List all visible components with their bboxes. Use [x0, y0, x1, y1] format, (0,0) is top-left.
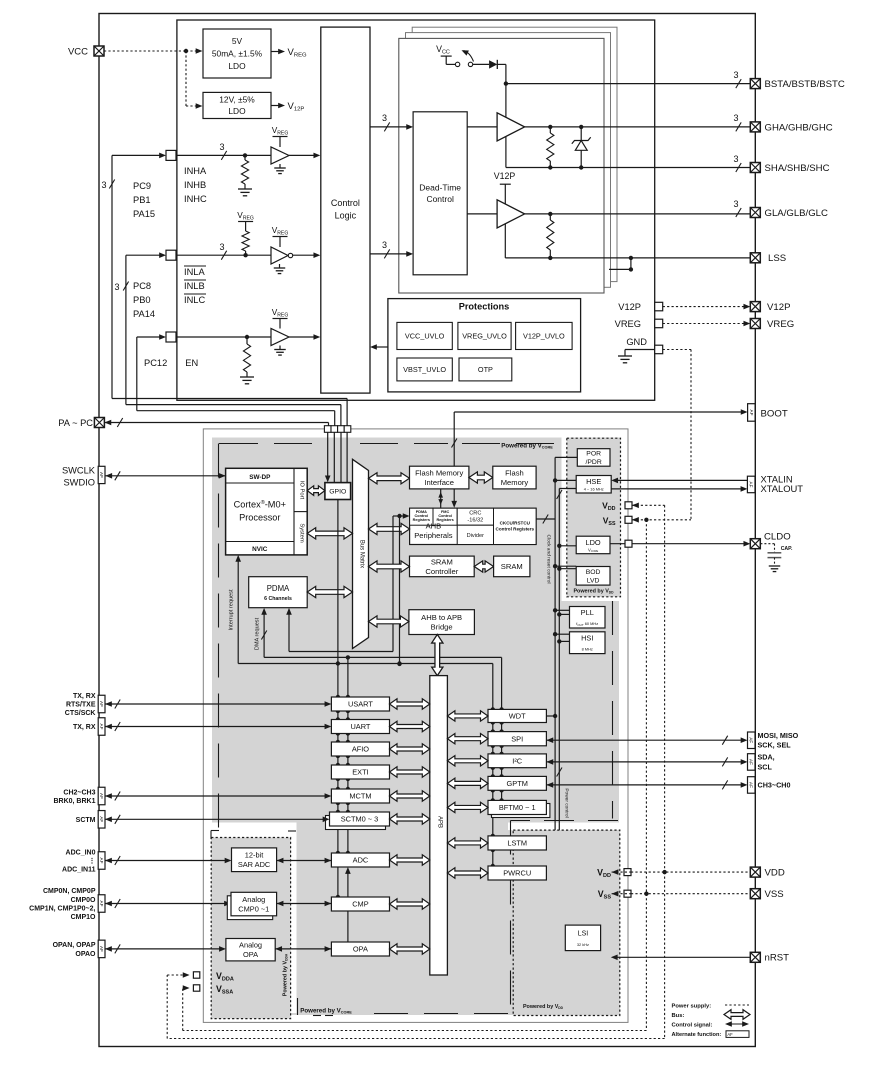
- wire protections to control logic: [375, 346, 388, 348]
- wire CKCU to bus: [536, 518, 555, 520]
- svg-text:LVD: LVD: [587, 577, 600, 584]
- svg-text:AF: AF: [99, 701, 104, 707]
- VCORE dashed border: [219, 443, 258, 445]
- svg-text:AFIO: AFIO: [352, 745, 369, 754]
- block GPTM: [488, 776, 546, 790]
- svg-text:4 ~ 16 MHz: 4 ~ 16 MHz: [584, 487, 604, 492]
- svg-text:PDMA: PDMA: [267, 584, 290, 593]
- block OTP: [459, 358, 512, 381]
- bus arrow APB - BFTM0 ~ 1: [447, 802, 488, 812]
- wire CMP-OPA: [347, 911, 349, 942]
- block BOD/LVD: [576, 567, 610, 586]
- svg-text:Interrupt request: Interrupt request: [229, 589, 235, 630]
- svg-text:OPAO: OPAO: [75, 951, 96, 958]
- VCC pin: [94, 46, 104, 56]
- wire VSS upper dotted: [632, 517, 639, 523]
- bus arrow BusMatrix - AHB Peripherals: [369, 523, 410, 534]
- svg-text:CAP.: CAP.: [781, 546, 793, 552]
- port square VDDA: [193, 972, 199, 978]
- svg-text:MCTM: MCTM: [349, 792, 371, 801]
- svg-text:OPA: OPA: [243, 950, 258, 959]
- svg-text:LSI: LSI: [578, 931, 589, 938]
- svg-text:SCL: SCL: [758, 762, 773, 771]
- wire XTALOUT: [611, 488, 742, 490]
- buffer EN (triangle): [271, 329, 289, 346]
- svg-text:TX, RX: TX, RX: [73, 693, 96, 700]
- sub-box Divider: [457, 525, 493, 544]
- svg-text:Bus Matrix: Bus Matrix: [359, 540, 365, 568]
- wire INH to buffer: [176, 154, 271, 156]
- svg-text:3: 3: [101, 180, 106, 190]
- svg-text:CMP0 ~1: CMP0 ~1: [238, 904, 269, 913]
- inverter INL (triangle with bubble): [271, 247, 288, 264]
- svg-text:AF: AF: [99, 472, 104, 478]
- wire BOOT to FMC: [454, 411, 742, 413]
- ground under INH buffer: [279, 164, 281, 168]
- block AHB Peripherals (outline): [410, 508, 536, 544]
- pin SPI MOSI/MISO/SCK/SEL (AF): [546, 737, 553, 743]
- svg-text:AF: AF: [749, 410, 754, 416]
- svg-text:CH2~CH3: CH2~CH3: [63, 789, 95, 796]
- svg-text:AF: AF: [99, 793, 104, 799]
- svg-text:Flash Memory: Flash Memory: [415, 468, 463, 477]
- svg-text:12-bit: 12-bit: [245, 851, 264, 860]
- svg-text:3: 3: [733, 199, 738, 209]
- svg-text:LDO: LDO: [228, 106, 246, 116]
- svg-text:3: 3: [114, 282, 119, 292]
- MCU enclosure rect: [203, 429, 628, 1023]
- wire GLA row to pin: [525, 213, 751, 215]
- svg-text:LSTM: LSTM: [507, 839, 527, 848]
- svg-text:GND: GND: [626, 337, 647, 347]
- wire chain USART..SCTM (left): [337, 711, 339, 720]
- svg-text:8 MHz: 8 MHz: [582, 647, 593, 652]
- svg-text:SHA/SHB/SHC: SHA/SHB/SHC: [765, 163, 830, 174]
- svg-text:Powered by VDD: Powered by VDD: [523, 1004, 564, 1010]
- svg-text:AF: AF: [749, 737, 754, 743]
- block Protections (outline): [388, 299, 581, 392]
- wire VDD row dotted: [612, 869, 619, 875]
- svg-text:Processor: Processor: [239, 513, 280, 523]
- block VBST_UVLO: [397, 358, 452, 381]
- pin BOOT (AF): [748, 404, 756, 422]
- svg-text:Peripherals: Peripherals: [414, 531, 453, 540]
- svg-text:CMP1N, CMP1P0~2,: CMP1N, CMP1P0~2,: [29, 905, 95, 912]
- svg-text:Protections: Protections: [459, 302, 510, 312]
- svg-text:BSTA/BSTB/BSTC: BSTA/BSTB/BSTC: [765, 79, 845, 90]
- block VREG_UVLO: [458, 322, 511, 349]
- svg-text:SCK, SEL: SCK, SEL: [758, 741, 792, 750]
- VDDA powered dotted box (analog): [211, 838, 290, 1019]
- port square VSS upper: [625, 516, 632, 523]
- svg-text:Control: Control: [426, 194, 454, 204]
- wire chain SCTM-ADC: [337, 826, 339, 853]
- block V12P_UVLO: [516, 322, 573, 349]
- svg-text:GLA/GLB/GLC: GLA/GLB/GLC: [765, 208, 829, 219]
- wire SWD to SW-DP: [105, 473, 112, 479]
- VDD powered dotted box (lower: LSTM PWRCU LSI): [513, 830, 620, 1015]
- block PDMA: [249, 577, 308, 608]
- pin LSS: [750, 253, 760, 263]
- block AHB to APB Bridge: [409, 610, 475, 635]
- driver buffer high-side: [467, 126, 497, 128]
- block OPA: [331, 942, 389, 956]
- svg-text:AF: AF: [99, 816, 104, 822]
- block shadow SCTM0~3: [326, 816, 386, 830]
- wire bus to HSI: [555, 633, 569, 635]
- pin UART TX/RX (AF): [98, 718, 105, 736]
- pin SWCLK/SWDIO (AF): [98, 466, 105, 483]
- pin square INL (driver input): [166, 250, 176, 260]
- svg-text:XTALOUT: XTALOUT: [761, 483, 804, 494]
- bus arrow APB - OPA: [390, 944, 430, 954]
- wire INL inverter to control logic: [293, 254, 315, 256]
- block MCTM: [331, 789, 389, 803]
- block PLL: [570, 607, 606, 629]
- block AFIO: [331, 742, 389, 756]
- svg-text:VSS: VSS: [765, 889, 784, 900]
- divider SW-DP: [226, 482, 294, 484]
- pin square EN (driver input): [166, 332, 176, 342]
- ground under CLDO cap: [769, 565, 780, 567]
- wire Analog CMP - CMP: [277, 901, 284, 907]
- svg-text:VREG: VREG: [767, 319, 794, 330]
- svg-text:SCTM0 ~ 3: SCTM0 ~ 3: [341, 815, 379, 824]
- wire INL to inverter: [176, 254, 271, 256]
- svg-text:V12P: V12P: [618, 302, 641, 312]
- bus arrow BusMatrix - Bridge: [369, 616, 409, 627]
- wire bus to POR: [555, 456, 577, 458]
- pin V12P: [750, 302, 760, 312]
- block Flash Memory Interface: [410, 466, 469, 489]
- block ADC: [331, 853, 389, 867]
- svg-text:APB: APB: [437, 816, 443, 828]
- block SCTM0 ~ 3: [330, 812, 390, 826]
- clock-reset control bus (left line): [554, 457, 556, 830]
- ground under EN buffer: [279, 346, 281, 350]
- pin CMP inputs (AF): [98, 895, 105, 913]
- bus arrow APB - MCTM: [390, 791, 430, 801]
- svg-text:DMA request: DMA request: [254, 617, 260, 650]
- wire card-stack return to LSS: [609, 268, 631, 270]
- svg-text:Divider: Divider: [467, 533, 485, 539]
- port square GND: [655, 345, 663, 354]
- ground under EN resistor: [240, 376, 254, 378]
- pin USART TX/RX/RTS/CTS (AF): [98, 695, 105, 713]
- pin ADC_IN0..11 (AF): [98, 852, 105, 870]
- svg-text:AHB: AHB: [426, 522, 442, 531]
- svg-text:3: 3: [733, 70, 738, 80]
- wire VSS bottom dotted rail: [183, 1030, 647, 1032]
- VCORE powered grey region: [212, 438, 619, 1016]
- block Flash Memory: [493, 466, 536, 489]
- wires gpio squares to GPIO block: [327, 432, 329, 477]
- svg-text:INLA: INLA: [184, 267, 205, 277]
- wire VSS row dotted: [612, 891, 619, 897]
- svg-text:LSS: LSS: [768, 253, 786, 264]
- svg-text:SWDIO: SWDIO: [63, 477, 95, 487]
- driver buffer low-side: [467, 213, 497, 215]
- svg-text:/PDR: /PDR: [586, 459, 602, 466]
- svg-text:V12P: V12P: [767, 302, 790, 313]
- svg-text:BRK0, BRK1: BRK0, BRK1: [53, 798, 95, 805]
- port square VREG: [655, 319, 663, 328]
- gate pull resistor (low): [549, 214, 551, 220]
- pin VDD: [750, 867, 760, 877]
- diode (bootstrap): [473, 63, 489, 65]
- svg-text:System: System: [299, 523, 305, 542]
- bus arrow System - BusMatrix: [307, 528, 352, 539]
- block Analog OPA: [226, 939, 275, 961]
- bus arrow APB - SCTM0 ~ 3: [390, 814, 430, 824]
- svg-text:EN: EN: [185, 358, 198, 368]
- block EXTI: [331, 765, 389, 779]
- svg-text:PA15: PA15: [133, 209, 155, 219]
- svg-text:VCC: VCC: [68, 47, 88, 58]
- pin OPA inputs (AF): [98, 940, 105, 958]
- svg-text:GHA/GHB/GHC: GHA/GHB/GHC: [765, 122, 833, 133]
- svg-text:AF: AF: [749, 782, 754, 788]
- bus arrow APB - UART: [390, 721, 430, 731]
- svg-text:⋮: ⋮: [89, 857, 96, 865]
- wire control logic to dead-time (high): [370, 126, 408, 128]
- svg-text:BFTM0 ~ 1: BFTM0 ~ 1: [499, 803, 536, 812]
- svg-text:AF: AF: [727, 1032, 733, 1037]
- svg-text:3: 3: [219, 242, 224, 252]
- block HSE: [576, 476, 611, 494]
- pull-down resistor on EN: [246, 337, 248, 344]
- ground symbol (driver GND): [618, 355, 632, 357]
- svg-text:ADC_IN11: ADC_IN11: [62, 867, 96, 874]
- divider NVIC: [226, 541, 294, 543]
- port square VSS lower: [624, 890, 631, 897]
- control arrows FMI - FMC registers: [440, 489, 442, 508]
- bus arrow APB - ADC: [390, 855, 430, 865]
- svg-text:VREG_UVLO: VREG_UVLO: [462, 332, 507, 341]
- svg-text:PA ~ PC: PA ~ PC: [58, 418, 93, 428]
- svg-text:PA14: PA14: [133, 309, 155, 319]
- wire control logic to dead-time (low): [370, 253, 408, 255]
- regulator 12V LDO: [203, 92, 271, 118]
- svg-text:MOSI, MISO: MOSI, MISO: [758, 731, 799, 740]
- pin GPTM CH3~CH0 (AF): [546, 782, 553, 788]
- wire INLA/B/C input (from PC8 group): [126, 254, 161, 256]
- svg-text:3: 3: [382, 240, 387, 250]
- svg-text:Flash: Flash: [505, 468, 524, 477]
- VDD powered dotted box (upper: POR HSE LDO BOD): [567, 438, 621, 597]
- wire CMP to ADC arrow: [347, 872, 349, 897]
- svg-text:3: 3: [733, 154, 738, 164]
- pin XTALIN/XTALOUT (AF): [747, 476, 755, 493]
- svg-text:SWCLK: SWCLK: [62, 466, 96, 476]
- block UART: [331, 720, 389, 734]
- svg-text:Logic: Logic: [335, 211, 357, 221]
- block shadow Analog CMP: [227, 896, 272, 920]
- pin SHA/SHB/SHC: [750, 163, 760, 173]
- svg-text:PB1: PB1: [133, 195, 151, 205]
- sub-box PDMA Control Registers: [410, 508, 433, 525]
- wire bus to HSE: [555, 479, 576, 481]
- svg-text:BOOT: BOOT: [761, 409, 788, 420]
- wire XTALIN: [617, 479, 748, 481]
- svg-text:POR: POR: [586, 451, 601, 458]
- pin SCTM (AF): [98, 811, 105, 829]
- bus arrow APB - SPI: [447, 734, 488, 744]
- bus arrow APB - EXTI: [390, 767, 430, 777]
- pin VREG: [750, 319, 760, 329]
- driver phase card (back): [412, 27, 617, 281]
- svg-text:OPA: OPA: [353, 945, 368, 954]
- wire EN buffer to control logic: [289, 336, 315, 338]
- driver phase card (front): [399, 38, 604, 293]
- wire VDD bottom dotted rail: [167, 1038, 664, 1040]
- svg-text:Bus:: Bus:: [672, 1013, 685, 1019]
- svg-text:3: 3: [219, 142, 224, 152]
- block WDT: [488, 709, 546, 722]
- divider IO Port / System column: [293, 468, 295, 555]
- wire VCC dotted to LDOs: [104, 50, 186, 52]
- pull-up resistor on INL: [242, 231, 249, 251]
- buffer INH (triangle): [271, 147, 289, 164]
- svg-text:AF: AF: [99, 946, 104, 952]
- pin GLA/GLB/GLC: [750, 208, 760, 218]
- svg-text:Analog: Analog: [239, 941, 262, 950]
- bus arrow BusMatrix - SRAM Controller: [369, 561, 410, 572]
- bus arrow APB - GPTM: [447, 778, 488, 788]
- svg-text:NVIC: NVIC: [252, 546, 268, 553]
- wire bootstrap node to BSTA row: [505, 64, 507, 167]
- pin BSTA/BSTB/BSTC: [750, 79, 760, 89]
- svg-text:ADC_IN0: ADC_IN0: [66, 850, 96, 857]
- block LSI: [565, 925, 600, 951]
- svg-text:ADC: ADC: [353, 856, 369, 865]
- svg-text:OPAN, OPAP: OPAN, OPAP: [53, 942, 96, 949]
- block SRAM: [494, 556, 530, 577]
- pin GHA/GHB/GHC: [750, 122, 760, 132]
- sub-box CRC -16/32: [457, 508, 493, 525]
- svg-text:VBST_UVLO: VBST_UVLO: [403, 365, 446, 374]
- zener diode (gate clamp): [580, 127, 582, 141]
- regulator 5V LDO: [203, 29, 271, 78]
- wire bus to BOD/LVD: [555, 565, 576, 567]
- svg-text:6 Channels: 6 Channels: [264, 596, 292, 602]
- svg-text:CTS/SCK: CTS/SCK: [65, 710, 96, 717]
- svg-text:Analog: Analog: [242, 895, 265, 904]
- svg-text:Controller: Controller: [425, 567, 458, 576]
- block POR/PDR: [577, 449, 610, 467]
- wire LSS rail to pin: [505, 257, 750, 259]
- block Cortex-M0+ processor (outline): [226, 468, 308, 555]
- bus arrow APB - I2C: [447, 756, 488, 766]
- svg-text:PB0: PB0: [133, 295, 151, 305]
- block 12-bit SAR ADC: [232, 848, 277, 872]
- ground under INL inverter: [279, 264, 281, 268]
- block VCC_UVLO: [397, 322, 452, 349]
- block GPIO: [325, 483, 351, 500]
- bus arrow APB - USART: [390, 699, 430, 709]
- svg-text:SPI: SPI: [511, 734, 523, 743]
- sub-box CKCU/RSTCU Control Registers: [494, 508, 537, 544]
- svg-text:Alternate function:: Alternate function:: [672, 1032, 722, 1038]
- wire chain USART..SCTM (right): [347, 711, 349, 720]
- wire LDO to CLDO pin: [610, 543, 745, 545]
- wire chain BFTM-LSTM-PWRCU: [492, 815, 494, 836]
- svg-text:32 kHz: 32 kHz: [577, 942, 589, 947]
- gate-driver block border: [177, 20, 655, 400]
- wire GHA row to pin: [525, 126, 751, 128]
- svg-text:CRC: CRC: [469, 510, 481, 516]
- bus arrow BusMatrix - FMI: [369, 473, 410, 484]
- wire VDD upper dotted: [632, 502, 639, 508]
- wire bus to LDO: [559, 545, 576, 547]
- wire SHA row to pin: [506, 167, 750, 169]
- port square VDD lower: [624, 869, 631, 876]
- svg-text:TX, RX: TX, RX: [73, 724, 96, 731]
- svg-text:12V, ±5%: 12V, ±5%: [219, 95, 255, 105]
- pull-down resistor on INH: [244, 155, 246, 160]
- svg-text:Control: Control: [331, 198, 360, 208]
- wire INH buffer to control logic: [289, 154, 315, 156]
- pin CLDO: [750, 539, 760, 549]
- wire Analog OPA - OPA: [275, 946, 282, 952]
- block PWRCU: [488, 866, 546, 880]
- control wire into AHB peripherals + PDMA request path: [393, 515, 404, 517]
- svg-text:INHB: INHB: [184, 180, 206, 190]
- svg-text:SW-DP: SW-DP: [249, 474, 271, 481]
- svg-text:VCC_UVLO: VCC_UVLO: [405, 332, 445, 341]
- svg-text:PC12: PC12: [144, 358, 167, 368]
- wire ADC-CMP: [337, 867, 339, 897]
- svg-text:INHA: INHA: [184, 166, 207, 176]
- wire GND dotted down to VSS node: [663, 349, 691, 351]
- APB bus bar: [430, 676, 448, 975]
- capacitor CAP. on CLDO: [760, 544, 793, 566]
- bus arrow APB - CMP: [390, 899, 430, 909]
- block SPI: [488, 732, 546, 746]
- svg-text:Dead-Time: Dead-Time: [419, 183, 461, 193]
- svg-text:PC9: PC9: [133, 181, 151, 191]
- wire PA~PC bus: [104, 420, 111, 426]
- svg-text:CKCU/RSTCU: CKCU/RSTCU: [500, 520, 531, 525]
- block shadow BFTM0~1: [492, 804, 550, 818]
- block Dead-Time Control: [413, 112, 467, 275]
- wire 5V LDO output: [271, 51, 280, 53]
- VCC switch symbol: [436, 44, 473, 67]
- svg-text:Interface: Interface: [424, 478, 454, 487]
- svg-text:SDA,: SDA,: [758, 753, 775, 762]
- svg-text:BOD: BOD: [586, 569, 601, 576]
- block CMP: [331, 897, 389, 911]
- svg-text:I²C: I²C: [512, 756, 523, 765]
- svg-text:HSE: HSE: [586, 477, 601, 486]
- chip outer border: [99, 14, 755, 1047]
- bus arrow APB - WDT: [447, 711, 488, 721]
- svg-text:AF: AF: [99, 858, 104, 864]
- svg-text:INLB: INLB: [184, 281, 205, 291]
- wire GND to ground symbol: [625, 349, 655, 351]
- svg-text:GPTM: GPTM: [507, 779, 528, 788]
- svg-text:UART: UART: [350, 722, 370, 731]
- white notch margins in grey region: [562, 438, 567, 602]
- pin VSS: [750, 889, 760, 899]
- svg-text:RTS/TXE: RTS/TXE: [66, 702, 96, 709]
- pin MCTM CH2~CH3 BRK (AF): [98, 787, 105, 805]
- svg-text:Control signal:: Control signal:: [672, 1023, 713, 1029]
- interrupt request wire: [237, 560, 239, 663]
- wire V12P dotted to pin: [663, 306, 745, 308]
- ground under INH resistor: [238, 188, 252, 190]
- svg-text:HSI: HSI: [581, 634, 593, 643]
